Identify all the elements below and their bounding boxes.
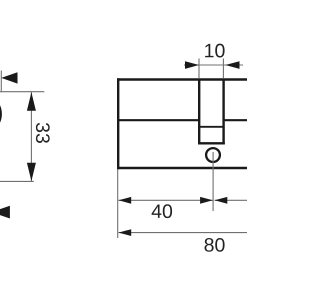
10 dim extension line left: [198, 59, 200, 79]
left extension line below body: [117, 170, 119, 239]
33 dim up arrow: [27, 92, 36, 111]
10 dimension line: [184, 64, 243, 66]
label 33 (rotated): [36, 123, 50, 143]
10 dim extension line right: [222, 59, 224, 79]
left callout arrow (top): [1, 72, 17, 83]
cam left edge: [198, 79, 200, 144]
80 dim left arrow: [119, 229, 132, 236]
left callout arrow (bottom, cut off): [0, 206, 10, 219]
label 10: [205, 44, 224, 58]
second 40 segment left arrow: [215, 197, 228, 204]
center extension line (from screw hole): [212, 152, 214, 211]
33 dim bottom reference line: [0, 180, 34, 182]
40 dimension line: [119, 199, 214, 201]
40 dim left arrow: [119, 197, 132, 204]
left vertical extension line: [0, 71, 2, 93]
33 dim top reference line: [0, 91, 44, 93]
cam inner line: [200, 126, 224, 128]
label 80: [205, 238, 225, 252]
cam right edge: [222, 79, 224, 144]
80 dimension line: [119, 232, 248, 234]
second 40 segment line (cut off): [215, 199, 248, 201]
screw hole circle: [206, 148, 220, 162]
profile-view cylinder arc (cut off at left edge): [0, 95, 1, 133]
label 40: [152, 204, 172, 218]
body bottom edge: [117, 167, 247, 169]
plug separation line (left of cam): [118, 119, 198, 121]
33 dimension line: [30, 92, 32, 181]
body top edge: [117, 78, 247, 80]
body left edge: [117, 78, 119, 169]
10 dim right arrow: [225, 61, 239, 69]
33 dim down arrow: [27, 163, 36, 181]
40 dim right arrow: [200, 197, 213, 204]
cam bottom edge: [198, 142, 225, 144]
plug separation line (right of cam): [224, 119, 247, 121]
10 dim left arrow: [185, 61, 199, 69]
